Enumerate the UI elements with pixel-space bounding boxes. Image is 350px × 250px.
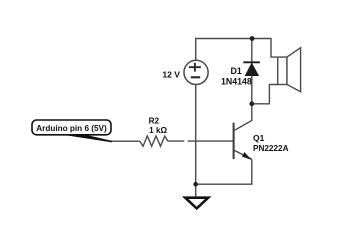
- callout tail (pointer to base wire): [60, 134, 112, 142]
- wire diode branch vertical (cathode to top rail, anode to collector node): [251, 39, 253, 104]
- wire base wire from callout to resistor R2: [110, 140, 140, 142]
- wire ground stub: [195, 184, 197, 196]
- callout box Arduino pin 6 (5V): [32, 120, 111, 135]
- wire 12V source negative lead down to ground node: [195, 85, 197, 185]
- voltage source V1 plus sign: [189, 63, 201, 72]
- svg-text:R2: R2: [149, 117, 160, 126]
- svg-text:12 V: 12 V: [162, 70, 180, 80]
- diode D1 triangle (anode, pointing up): [245, 63, 258, 75]
- svg-text:1N4148: 1N4148: [221, 77, 252, 87]
- transistor Q1 collector lead: [234, 104, 252, 131]
- transistor Q1 emitter arrow: [242, 152, 252, 160]
- transistor Q1 emitter lead: [234, 150, 252, 159]
- svg-text:1 kΩ: 1 kΩ: [149, 126, 167, 135]
- voltage source V1 circle: [184, 60, 208, 84]
- svg-text:PN2222A: PN2222A: [253, 144, 289, 153]
- ground symbol: [185, 198, 208, 209]
- svg-text:Arduino pin 6 (5V): Arduino pin 6 (5V): [36, 124, 107, 133]
- diode D1 cathode bar: [243, 61, 259, 63]
- resistor R2 zigzag: [140, 136, 168, 146]
- wire top rail: 12V source positive up and right to speaker branch: [196, 39, 278, 61]
- junction dot: diode anode / collector / speaker return: [249, 101, 254, 106]
- speaker LS1 driver body: [278, 57, 287, 84]
- wire base wire from resistor R2 to transistor base (with small break): [168, 140, 234, 142]
- junction dot: ground node: [193, 182, 198, 187]
- transistor Q1 base bar: [233, 123, 235, 159]
- voltage source V1 minus sign: [191, 76, 200, 78]
- junction dot: top rail / diode cathode: [250, 36, 255, 41]
- wire speaker bottom lead to collector node: [252, 85, 278, 104]
- wire emitter lead down and bottom rail left to ground node: [196, 159, 252, 184]
- svg-text:Q1: Q1: [253, 133, 265, 143]
- svg-text:D1: D1: [231, 66, 242, 76]
- speaker LS1 cone: [287, 48, 301, 92]
